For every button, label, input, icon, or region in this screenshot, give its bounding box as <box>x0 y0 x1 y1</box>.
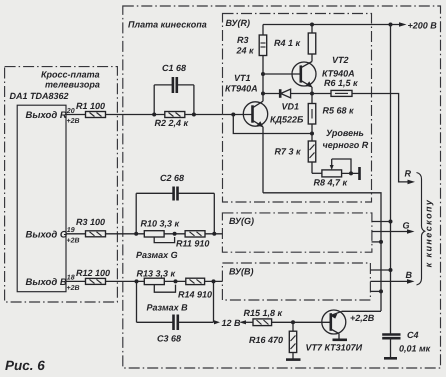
resistor R3 24к <box>236 25 267 75</box>
wire B box pin2 output <box>370 280 409 282</box>
potentiometer R8 4,7к <box>314 159 360 188</box>
wire G box pin2 output <box>372 231 410 233</box>
node C1 right junction <box>192 113 196 117</box>
svg-text:VT7 КТ3107И: VT7 КТ3107И <box>306 343 363 353</box>
svg-text:R15 1,8 к: R15 1,8 к <box>244 308 283 318</box>
svg-text:R5 68 к: R5 68 к <box>323 106 355 116</box>
node +200V vertical rail top <box>389 23 393 27</box>
wire G box pin3 to +2,2В rail <box>372 241 382 243</box>
svg-text:+2В: +2В <box>67 238 80 245</box>
svg-text:19: 19 <box>67 227 75 234</box>
node R15/R16/base <box>291 320 295 324</box>
output B arrow <box>406 270 415 284</box>
svg-text:R3: R3 <box>237 35 249 45</box>
node G left <box>134 232 138 236</box>
svg-text:В: В <box>406 270 413 280</box>
svg-text:+2В: +2В <box>67 118 80 125</box>
brace к кинескопу <box>417 173 434 286</box>
capacitor C2 68 <box>136 173 214 234</box>
svg-text:0,01 мк: 0,01 мк <box>399 344 431 354</box>
svg-text:+2,2В: +2,2В <box>350 313 375 323</box>
block ВУ(R) (dashed box) <box>223 14 372 203</box>
label Уровень чёрного R <box>323 128 369 150</box>
resistor R7 3к <box>275 134 322 174</box>
svg-text:VD1: VD1 <box>282 102 300 112</box>
IC DA1 TDA8362 (inner box) <box>10 91 69 292</box>
svg-text:Размах G: Размах G <box>136 250 178 260</box>
svg-text:R8 4,7 к: R8 4,7 к <box>314 178 348 188</box>
node Выход R pin 20 <box>26 108 80 125</box>
resistor R14 910 <box>178 278 212 299</box>
potentiometer R10 3,3к <box>141 219 180 243</box>
svg-text:R3 100: R3 100 <box>76 217 105 227</box>
block ВУ(G) (dashed box) <box>222 213 372 252</box>
svg-text:Выход R: Выход R <box>26 110 67 121</box>
svg-text:+2В: +2В <box>67 285 80 292</box>
svg-text:Кросс-плата: Кросс-плата <box>41 70 100 80</box>
wire +200V rail horizontal <box>263 24 400 26</box>
svg-text:R6 1,5 к: R6 1,5 к <box>324 78 358 88</box>
wire R6 to R output <box>352 94 409 182</box>
wire VT1 emitter rail to +2,2В <box>263 193 381 311</box>
svg-text:C3 68: C3 68 <box>157 334 181 344</box>
output R arrow <box>405 169 416 185</box>
node VT1 base junction <box>231 113 235 117</box>
node Выход B pin 18 <box>26 275 80 293</box>
wire G box pin1 to +200V rail <box>372 221 391 223</box>
svg-text:R14 910: R14 910 <box>178 290 212 300</box>
svg-text:R: R <box>405 169 412 179</box>
svg-text:ВУ(G): ВУ(G) <box>229 216 254 226</box>
svg-text:R1 100: R1 100 <box>76 101 105 111</box>
wire B box pin3 to +2,2В rail <box>370 290 381 292</box>
svg-text:R10 3,3 к: R10 3,3 к <box>141 219 180 229</box>
svg-text:VT1: VT1 <box>234 73 251 83</box>
svg-text:Плата кинескопа: Плата кинескопа <box>128 20 207 30</box>
svg-text:Рис. 6: Рис. 6 <box>5 358 45 373</box>
svg-text:к кинескопу: к кинескопу <box>424 199 434 268</box>
block Кросс-плата телевизора (dashed box) <box>5 67 118 302</box>
svg-text:C2 68: C2 68 <box>160 173 184 183</box>
transistor VT2 КТ940А <box>292 55 355 88</box>
svg-text:Выход G: Выход G <box>26 230 68 241</box>
svg-text:ВУ(R): ВУ(R) <box>226 18 251 28</box>
wire R15 to VT7 base <box>272 321 331 323</box>
svg-text:24 к: 24 к <box>236 46 255 56</box>
resistor R1 100 <box>76 101 106 118</box>
svg-text:VT2: VT2 <box>332 55 349 65</box>
svg-text:КТ940А: КТ940А <box>322 69 355 79</box>
resistor R6 1,5к <box>312 78 358 96</box>
wire VT1 emitter down <box>262 127 264 193</box>
node R13/R14 junction <box>174 279 178 283</box>
resistor R11 910 <box>176 231 209 249</box>
wire base node to R5/R7 node <box>233 115 312 134</box>
wire output G <box>66 233 86 235</box>
capacitor C4 0,01мк <box>382 330 430 357</box>
resistor R4 1к <box>274 25 316 62</box>
supply +200В arrow <box>399 21 437 31</box>
svg-text:G: G <box>403 221 410 231</box>
transistor VT1 КТ940А <box>225 73 268 127</box>
resistor R12 100 <box>76 268 110 284</box>
ground VT7 <box>333 338 348 341</box>
resistor R2 2,4к <box>155 112 189 129</box>
svg-text:R2 2,4 к: R2 2,4 к <box>155 118 189 128</box>
resistor R15 1,8к <box>244 308 283 326</box>
svg-text:R16 470: R16 470 <box>249 335 283 345</box>
potentiometer R13 3,3к <box>137 269 176 293</box>
node R10/R11 junction <box>173 232 177 236</box>
svg-text:КТ940А: КТ940А <box>225 84 258 94</box>
wire output B <box>66 280 86 282</box>
node B left <box>135 279 139 283</box>
diode VD1 КД522Б <box>263 89 312 124</box>
svg-text:DA1 TDA8362: DA1 TDA8362 <box>10 91 69 101</box>
wire VT7 collector to ground <box>338 334 340 339</box>
svg-text:R12 100: R12 100 <box>76 268 110 278</box>
svg-text:Уровень: Уровень <box>326 128 364 138</box>
capacitor C3 68 <box>137 281 214 343</box>
svg-text:Размах В: Размах В <box>147 303 189 313</box>
capacitor C1 68 <box>154 63 194 115</box>
node G right <box>212 232 216 236</box>
svg-text:телевизора: телевизора <box>45 80 100 90</box>
node R4 top <box>310 23 314 27</box>
node VT2 emitter / VD1 / R5 / R6 <box>310 92 314 96</box>
wire G channel <box>106 233 223 235</box>
wire VT7 emitter to +2,2В rail <box>342 310 381 312</box>
svg-text:ВУ(В): ВУ(В) <box>229 267 254 277</box>
svg-text:12 В: 12 В <box>222 318 242 328</box>
svg-text:18: 18 <box>67 275 75 282</box>
ground R16 <box>286 358 301 361</box>
node Выход G pin 19 <box>26 227 80 245</box>
resistor R16 470 <box>249 322 297 358</box>
svg-text:R11 910: R11 910 <box>176 239 209 249</box>
wire VT1 collector <box>262 74 264 101</box>
node VT1 collector / R3 / VT2 base <box>261 72 265 76</box>
node VT1 collector / VD1 cathode <box>261 92 265 96</box>
resistor R5 68к <box>308 94 354 134</box>
svg-text:C1 68: C1 68 <box>162 63 186 73</box>
wire B channel <box>106 280 223 282</box>
block ВУ(В) (dashed box) <box>222 263 370 300</box>
ground C4 <box>384 357 397 360</box>
svg-text:черного R: черного R <box>323 140 369 150</box>
resistor R3 100 (G channel) <box>76 217 106 237</box>
supply 12В arrows <box>214 318 253 328</box>
svg-text:R13 3,3 к: R13 3,3 к <box>137 269 176 279</box>
wire R channel to VT1 base <box>106 114 253 116</box>
svg-text:Выход В: Выход В <box>26 277 67 288</box>
wire output R <box>66 114 86 116</box>
node R5 bottom / R7 top / feedback <box>310 132 314 136</box>
wire VT2 base <box>263 73 301 75</box>
wire VT2 emitter to node <box>311 87 313 94</box>
output G arrow <box>403 221 415 234</box>
wire B box pin1 to +200V rail <box>370 269 390 271</box>
transistor VT7 КТ3107И <box>306 310 363 353</box>
svg-text:C4: C4 <box>407 330 419 340</box>
svg-text:R7 3 к: R7 3 к <box>275 147 302 157</box>
block Плата кинескопа (dashed box) <box>123 6 441 368</box>
svg-text:R4 1 к: R4 1 к <box>274 38 301 48</box>
svg-text:+200 В: +200 В <box>408 21 438 31</box>
wire +200V vertical rail <box>390 25 392 335</box>
svg-text:КД522Б: КД522Б <box>270 115 304 125</box>
node C1 left junction <box>152 113 156 117</box>
node B right <box>212 279 216 283</box>
